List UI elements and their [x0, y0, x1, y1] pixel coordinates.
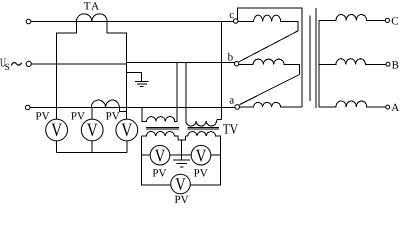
svg-text:c: c — [229, 9, 234, 21]
svg-text:TA: TA — [84, 1, 101, 13]
ground symbol (TV secondary centre) — [173, 160, 190, 167]
terminal a — [235, 105, 240, 110]
wire: diagonal from c winding to terminal b — [239, 31, 298, 62]
wire: winding right end jog to PV3 branch — [119, 108, 126, 112]
label B — [392, 59, 399, 71]
terminal A — [386, 105, 390, 109]
transformer secondary winding A (wye) — [319, 101, 386, 107]
label a — [229, 95, 234, 107]
svg-text:B: B — [392, 59, 399, 71]
svg-text:b: b — [228, 51, 234, 63]
svg-text:PV: PV — [35, 110, 49, 122]
label PV (PV5) — [194, 167, 208, 179]
transformer secondary winding C (wye) — [319, 14, 385, 20]
wire: stub from bottom wire to voltmeter PV2 — [91, 108, 93, 120]
inductor winding humps on bottom wire — [91, 100, 119, 107]
svg-text:V: V — [121, 120, 132, 141]
transformer core lines — [310, 8, 316, 108]
label b — [228, 51, 234, 63]
svg-text:V: V — [175, 174, 186, 194]
svg-text:PV: PV — [71, 110, 85, 122]
svg-text:C: C — [391, 15, 398, 27]
svg-text:S: S — [5, 63, 10, 73]
svg-text:PV: PV — [106, 110, 120, 122]
svg-text:PV: PV — [174, 194, 188, 206]
ground symbol (on TA right branch) — [127, 73, 149, 87]
svg-text:V: V — [155, 145, 166, 165]
transformer primary winding a (delta) — [240, 102, 303, 107]
svg-text:PV: PV — [194, 167, 208, 179]
voltage transformer TV primary winding 2 — [186, 62, 222, 126]
label PV (PV6) — [174, 194, 188, 206]
terminal b — [234, 62, 238, 66]
terminal: bottom supply input — [25, 105, 30, 110]
wire: TA right branch down to voltmeter PV3 — [107, 22, 127, 120]
label PV (PV4) — [152, 167, 166, 179]
terminal C — [385, 18, 389, 22]
voltmeter PV1 — [46, 119, 68, 141]
voltage transformer TV secondary winding 1 — [142, 131, 179, 140]
label TV — [223, 122, 238, 137]
TV core lines — [146, 127, 219, 129]
label C — [391, 15, 398, 27]
svg-text:a: a — [229, 95, 234, 107]
wire: measurement box right side — [190, 137, 220, 185]
label TA — [84, 1, 101, 13]
voltage transformer TV primary winding 1 — [142, 62, 177, 121]
wire: PV1-PV2-PV3 common bottom bus — [57, 141, 127, 152]
wire: middle phase (b) supply line — [32, 62, 235, 64]
wire: PV4 to PV5 horizontal links — [142, 154, 221, 156]
terminal: top supply input — [26, 19, 31, 24]
voltage transformer TV secondary winding 2 — [185, 132, 220, 137]
label Us~ source — [0, 56, 22, 73]
terminal B — [386, 62, 390, 66]
label PV (PV3) — [106, 110, 120, 122]
voltmeter PV3 — [116, 119, 138, 141]
svg-text:A: A — [391, 102, 399, 114]
svg-text:V: V — [87, 120, 98, 141]
label PV (PV2) — [71, 110, 85, 122]
wire: delta loop (c top link, right side, to a winding end) — [237, 8, 302, 107]
terminal c — [233, 19, 238, 24]
wire: measurement box left side — [142, 136, 171, 185]
wire: from top phase (c) down to TV primary 2 — [221, 22, 223, 120]
wire: TV secondary centre tap down to ground — [181, 140, 183, 160]
label PV (PV1) — [35, 110, 49, 122]
voltmeter PV2 — [81, 119, 103, 141]
svg-text:PV: PV — [152, 167, 166, 179]
voltmeter PV6 — [171, 174, 191, 194]
wire: wye neutral bus — [318, 21, 320, 107]
wire: bottom phase (a) supply line — [30, 107, 235, 109]
wire: top phase (c) supply line — [31, 21, 233, 23]
wire: TA left branch down to voltmeter PV1 — [57, 22, 77, 120]
current transformer TA winding humps on top wire — [76, 14, 107, 22]
svg-text:TV: TV — [223, 122, 238, 137]
label A — [391, 102, 399, 114]
svg-text:V: V — [51, 120, 62, 141]
terminal: middle supply input (Us) — [26, 61, 31, 66]
transformer secondary winding B (wye) — [319, 59, 386, 65]
wire: TV secondary midpoint link — [178, 136, 185, 140]
voltmeter PV4 — [150, 145, 170, 165]
voltmeter PV5 — [191, 145, 211, 165]
transformer primary winding c (delta) — [238, 15, 298, 31]
wire: diagonal from b winding to terminal a — [240, 75, 300, 105]
svg-text:V: V — [196, 145, 207, 165]
transformer primary winding b (delta) — [239, 59, 300, 74]
label c — [229, 9, 234, 21]
